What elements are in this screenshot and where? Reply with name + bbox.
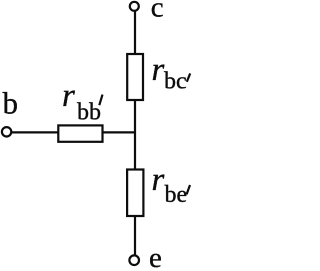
terminal e (129, 255, 139, 265)
wire r_bb' to node b' (102, 131, 136, 133)
terminal b (2, 127, 11, 136)
resistor R3 r_be' (127, 170, 143, 217)
svg-text:r: r (62, 78, 75, 114)
wire r_be' to e (134, 216, 136, 256)
svg-text:r: r (152, 162, 165, 198)
label r_bb' (62, 78, 103, 125)
svg-text:b: b (3, 86, 19, 121)
svg-text:c: c (151, 0, 164, 23)
wire b to resistor r_bb' (11, 131, 59, 133)
resistor R1 r_bc' (127, 54, 143, 100)
label r_be' (152, 162, 191, 208)
terminal c (130, 2, 139, 11)
label r_bc' (152, 52, 191, 95)
svg-text:be: be (165, 182, 188, 208)
wire r_bc' to node b' (134, 100, 136, 171)
svg-text:bb: bb (77, 100, 101, 126)
svg-text:e: e (149, 242, 162, 271)
svg-text:bc: bc (164, 69, 187, 95)
svg-text:r: r (152, 52, 165, 88)
wire c to resistor r_bc' (134, 11, 136, 55)
resistor R2 r_bb' (58, 125, 102, 141)
